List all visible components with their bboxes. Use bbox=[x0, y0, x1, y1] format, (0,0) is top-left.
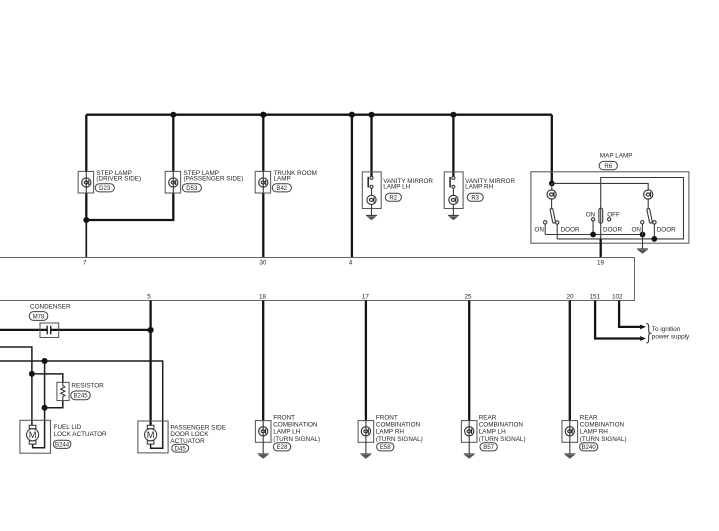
wire: vanity mirror RH feed bbox=[452, 115, 454, 177]
svg-text:(TURN SIGNAL): (TURN SIGNAL) bbox=[580, 436, 627, 443]
lamp: map lamp right bulb bbox=[644, 190, 653, 199]
svg-text:COMBINATION: COMBINATION bbox=[273, 422, 318, 429]
svg-text:(PASSENGER SIDE): (PASSENGER SIDE) bbox=[184, 176, 244, 183]
svg-text:DOOR: DOOR bbox=[657, 226, 676, 233]
wire: right bulb to right switch bbox=[647, 199, 649, 209]
svg-text:OFF: OFF bbox=[607, 212, 620, 219]
map lamp R6 assembly box bbox=[531, 172, 689, 243]
connector E28 bbox=[273, 443, 290, 451]
svg-text:(TURN SIGNAL): (TURN SIGNAL) bbox=[479, 436, 526, 443]
contact: left switch ON bbox=[544, 221, 547, 224]
svg-text:D23: D23 bbox=[99, 186, 111, 192]
label: VANITY MIRROR LAMP LH bbox=[383, 178, 433, 191]
motor: fuel lid actuator bbox=[27, 425, 39, 444]
label: STEP LAMP (PASSENGER SIDE) bbox=[184, 170, 244, 183]
lamp E58 front combination RH turn signal bbox=[358, 421, 374, 454]
wire: fuel lid branch (line 2) bbox=[0, 347, 32, 426]
svg-text:151: 151 bbox=[590, 294, 601, 301]
label: PASSENGER SIDE DOOR LOCK ACTUATOR bbox=[170, 424, 226, 445]
wire: pin 102 to ignition power supply bbox=[619, 301, 641, 327]
svg-text:(TURN SIGNAL): (TURN SIGNAL) bbox=[376, 436, 423, 443]
label: To ignition power supply bbox=[652, 326, 690, 340]
wire: trunk room lamp feed (pin 30) bbox=[262, 115, 264, 172]
connector M78 bbox=[29, 312, 48, 321]
wire: pin 25 to rear combination lamp LH bbox=[468, 301, 470, 422]
wire: lock actuator branch (line 3) bbox=[0, 361, 163, 448]
node: ON bus junction middle bbox=[590, 232, 596, 238]
lamp D23 step lamp driver side bbox=[78, 171, 93, 193]
wire: resistor bottom lead bbox=[45, 401, 63, 408]
svg-text:R3: R3 bbox=[471, 196, 479, 202]
svg-text:LAMP RH: LAMP RH bbox=[580, 429, 609, 436]
svg-text:power supply: power supply bbox=[652, 333, 690, 340]
arrow: ignition feed 102 bbox=[640, 325, 646, 330]
node: junction line3 x44 bbox=[42, 358, 48, 364]
label: FRONT COMBINATION LAMP RH (TURN SIGNAL) bbox=[376, 414, 423, 443]
ground: E28 bbox=[258, 454, 269, 459]
svg-text:ON: ON bbox=[534, 226, 544, 233]
wire: map feed to left bulb bbox=[551, 183, 553, 189]
ground: map lamp bbox=[637, 249, 648, 254]
svg-text:DOOR: DOOR bbox=[603, 226, 622, 233]
wire: condenser line bbox=[0, 329, 151, 331]
svg-text:R2: R2 bbox=[389, 196, 397, 202]
svg-text:FRONT: FRONT bbox=[273, 414, 295, 421]
resistor B245 bbox=[57, 382, 69, 400]
svg-text:B57: B57 bbox=[483, 445, 494, 451]
connector D53 bbox=[182, 184, 201, 192]
svg-text:20: 20 bbox=[566, 294, 574, 301]
node: bus junction at x351 bbox=[349, 112, 355, 118]
ground: B57 bbox=[464, 454, 475, 459]
connector B57 bbox=[480, 443, 497, 451]
wire: step lamp driver feed (pin 7 branch) bbox=[85, 115, 87, 172]
connector D23 bbox=[95, 184, 114, 192]
node: bus junction at x173 bbox=[170, 112, 176, 118]
lamp B240 rear combination RH turn signal bbox=[562, 421, 578, 454]
contact: right switch ON bbox=[641, 221, 644, 224]
wire: pin 4 feed bbox=[351, 115, 353, 258]
svg-text:B240: B240 bbox=[582, 445, 597, 451]
label: FRONT COMBINATION LAMP LH (TURN SIGNAL) bbox=[273, 414, 320, 443]
label: VANITY MIRROR LAMP RH bbox=[465, 178, 515, 191]
lamp R3 vanity mirror lamp RH bbox=[444, 172, 463, 215]
ground: B240 bbox=[564, 454, 575, 459]
lamp D53 step lamp passenger side bbox=[165, 171, 180, 193]
wire: interior lamp power bus bbox=[86, 114, 552, 116]
contact: middle OFF bbox=[608, 218, 611, 221]
svg-text:LAMP LH: LAMP LH bbox=[273, 429, 300, 436]
lamp E28 front combination LH turn signal bbox=[255, 421, 271, 454]
svg-text:M78: M78 bbox=[33, 314, 45, 320]
svg-text:COMBINATION: COMBINATION bbox=[376, 422, 421, 429]
wire: right DOOR contact to DOOR bus bbox=[653, 224, 655, 239]
lamp: map lamp left bulb bbox=[547, 190, 556, 199]
svg-text:E28: E28 bbox=[277, 445, 288, 451]
svg-text:DOOR: DOOR bbox=[561, 226, 580, 233]
passenger side door lock actuator D45 box bbox=[138, 421, 168, 453]
svg-text:LAMP LH: LAMP LH bbox=[383, 184, 410, 191]
wire: left DOOR contact to DOOR bus bbox=[556, 224, 558, 239]
svg-text:(TURN SIGNAL): (TURN SIGNAL) bbox=[273, 436, 320, 443]
node: bus junction at x371 bbox=[369, 112, 375, 118]
ground: E58 bbox=[361, 454, 372, 459]
svg-text:18: 18 bbox=[259, 294, 267, 301]
node: bus junction at x453 bbox=[450, 112, 456, 118]
wire: resistor main branch bbox=[33, 361, 45, 448]
label: REAR COMBINATION LAMP LH (TURN SIGNAL) bbox=[479, 414, 526, 443]
wire: ON bus bbox=[545, 234, 642, 236]
svg-text:FUEL LID: FUEL LID bbox=[54, 424, 82, 431]
svg-text:LAMP RH: LAMP RH bbox=[465, 184, 494, 191]
svg-text:17: 17 bbox=[362, 294, 370, 301]
wire: map feed branch to right bulb bbox=[552, 183, 648, 189]
wire: pin 19 output bbox=[600, 239, 602, 257]
wire: DOOR bus loop to middle switch bbox=[557, 178, 683, 239]
body control module connector box bbox=[0, 258, 635, 301]
wire: vanity mirror LH feed bbox=[370, 115, 372, 177]
svg-text:ON: ON bbox=[632, 226, 642, 233]
node: junction resistor bottom tap bbox=[42, 405, 48, 411]
svg-text:30: 30 bbox=[259, 259, 267, 266]
wire: map ground stem bbox=[642, 235, 644, 249]
svg-text:5: 5 bbox=[147, 294, 151, 301]
ground: vanity LH bbox=[366, 215, 377, 220]
svg-text:E58: E58 bbox=[380, 445, 391, 451]
svg-text:FRONT: FRONT bbox=[376, 414, 398, 421]
svg-text:7: 7 bbox=[83, 259, 87, 266]
connector D45 bbox=[172, 444, 189, 452]
connector B42 bbox=[272, 184, 291, 192]
connector B245 bbox=[71, 391, 90, 400]
svg-text:LAMP: LAMP bbox=[274, 176, 291, 183]
wire: middle ON contact to ON bus bbox=[592, 221, 594, 235]
contact: right switch pivot bbox=[653, 221, 656, 224]
node: DOOR bus junction right bbox=[651, 236, 657, 242]
svg-text:COMBINATION: COMBINATION bbox=[479, 422, 524, 429]
lamp R2 vanity mirror lamp LH bbox=[362, 172, 381, 215]
svg-text:MAP LAMP: MAP LAMP bbox=[600, 152, 633, 159]
connector R3 bbox=[467, 193, 483, 201]
node: bus junction at x262 bbox=[260, 112, 266, 118]
motor: passenger door lock actuator bbox=[145, 425, 157, 444]
svg-text:D53: D53 bbox=[186, 186, 198, 192]
wire: pin 20 to rear combination lamp RH bbox=[569, 301, 571, 422]
node: map feed junction bbox=[549, 181, 555, 187]
wire: pin 151 to ignition power supply bbox=[595, 301, 641, 339]
fuel lid lock actuator B244 box bbox=[20, 420, 51, 453]
svg-text:D45: D45 bbox=[175, 446, 187, 452]
svg-text:19: 19 bbox=[597, 259, 605, 266]
switch: map middle slider bbox=[599, 208, 603, 223]
contact: middle ON bbox=[592, 218, 595, 221]
node: condenser junction bbox=[148, 327, 154, 333]
svg-text:B42: B42 bbox=[276, 186, 287, 192]
svg-text:25: 25 bbox=[464, 294, 472, 301]
svg-text:ON: ON bbox=[586, 212, 596, 219]
svg-text:REAR: REAR bbox=[580, 414, 598, 421]
svg-text:To ignition: To ignition bbox=[652, 326, 681, 333]
svg-text:R6: R6 bbox=[604, 164, 612, 170]
svg-text:CONDENSER: CONDENSER bbox=[30, 303, 71, 310]
switch: map left lever bbox=[550, 208, 556, 223]
svg-text:B244: B244 bbox=[55, 443, 70, 449]
connector B240 bbox=[580, 443, 598, 451]
svg-text:102: 102 bbox=[612, 294, 623, 301]
label: REAR COMBINATION LAMP RH (TURN SIGNAL) bbox=[580, 414, 627, 443]
wire: resistor top lead bbox=[32, 374, 63, 382]
svg-text:COMBINATION: COMBINATION bbox=[580, 422, 625, 429]
brace: to ignition power supply bbox=[647, 323, 651, 343]
svg-text:4: 4 bbox=[349, 259, 353, 266]
contact: left switch pivot bbox=[556, 221, 559, 224]
node: junction resistor top tap bbox=[29, 371, 35, 377]
label: FUEL LID LOCK ACTUATOR bbox=[54, 424, 107, 438]
svg-text:RESISTOR: RESISTOR bbox=[71, 383, 104, 390]
wire: pin 5 to door lock actuators bbox=[149, 301, 151, 427]
wire: pin 17 to front combination lamp RH bbox=[365, 301, 367, 422]
wire: step lamp passenger branch bbox=[172, 115, 174, 172]
wire: right ON contact to ON bus bbox=[641, 224, 643, 235]
label: TRUNK ROOM LAMP bbox=[274, 170, 317, 183]
svg-text:LAMP LH: LAMP LH bbox=[479, 429, 506, 436]
connector B244 bbox=[53, 440, 71, 448]
svg-text:LOCK ACTUATOR: LOCK ACTUATOR bbox=[54, 431, 107, 438]
arrow: ignition feed 151 bbox=[640, 336, 646, 341]
wire: pin 18 to front combination lamp LH bbox=[262, 301, 264, 422]
wire: left bulb to left switch bbox=[551, 199, 553, 209]
condenser M78 bbox=[40, 323, 59, 338]
svg-text:B245: B245 bbox=[73, 394, 88, 400]
wire: left ON contact to ON bus bbox=[544, 224, 546, 235]
connector E58 bbox=[377, 443, 394, 451]
connector R6 bbox=[599, 161, 617, 169]
svg-text:LAMP RH: LAMP RH bbox=[376, 429, 405, 436]
connector R2 bbox=[385, 193, 401, 201]
wire: map lamp feed bbox=[551, 115, 553, 184]
lamp B42 trunk room lamp bbox=[255, 171, 270, 193]
label: STEP LAMP (DRIVER SIDE) bbox=[96, 170, 141, 183]
svg-text:(DRIVER SIDE): (DRIVER SIDE) bbox=[96, 176, 141, 183]
lamp B57 rear combination LH turn signal bbox=[461, 421, 477, 454]
ground: vanity RH bbox=[448, 215, 459, 220]
node: junction step lamps bbox=[83, 217, 89, 223]
svg-text:REAR: REAR bbox=[479, 414, 497, 421]
switch: map right lever bbox=[647, 208, 653, 223]
node: ON bus junction right / ground tap bbox=[640, 232, 646, 238]
